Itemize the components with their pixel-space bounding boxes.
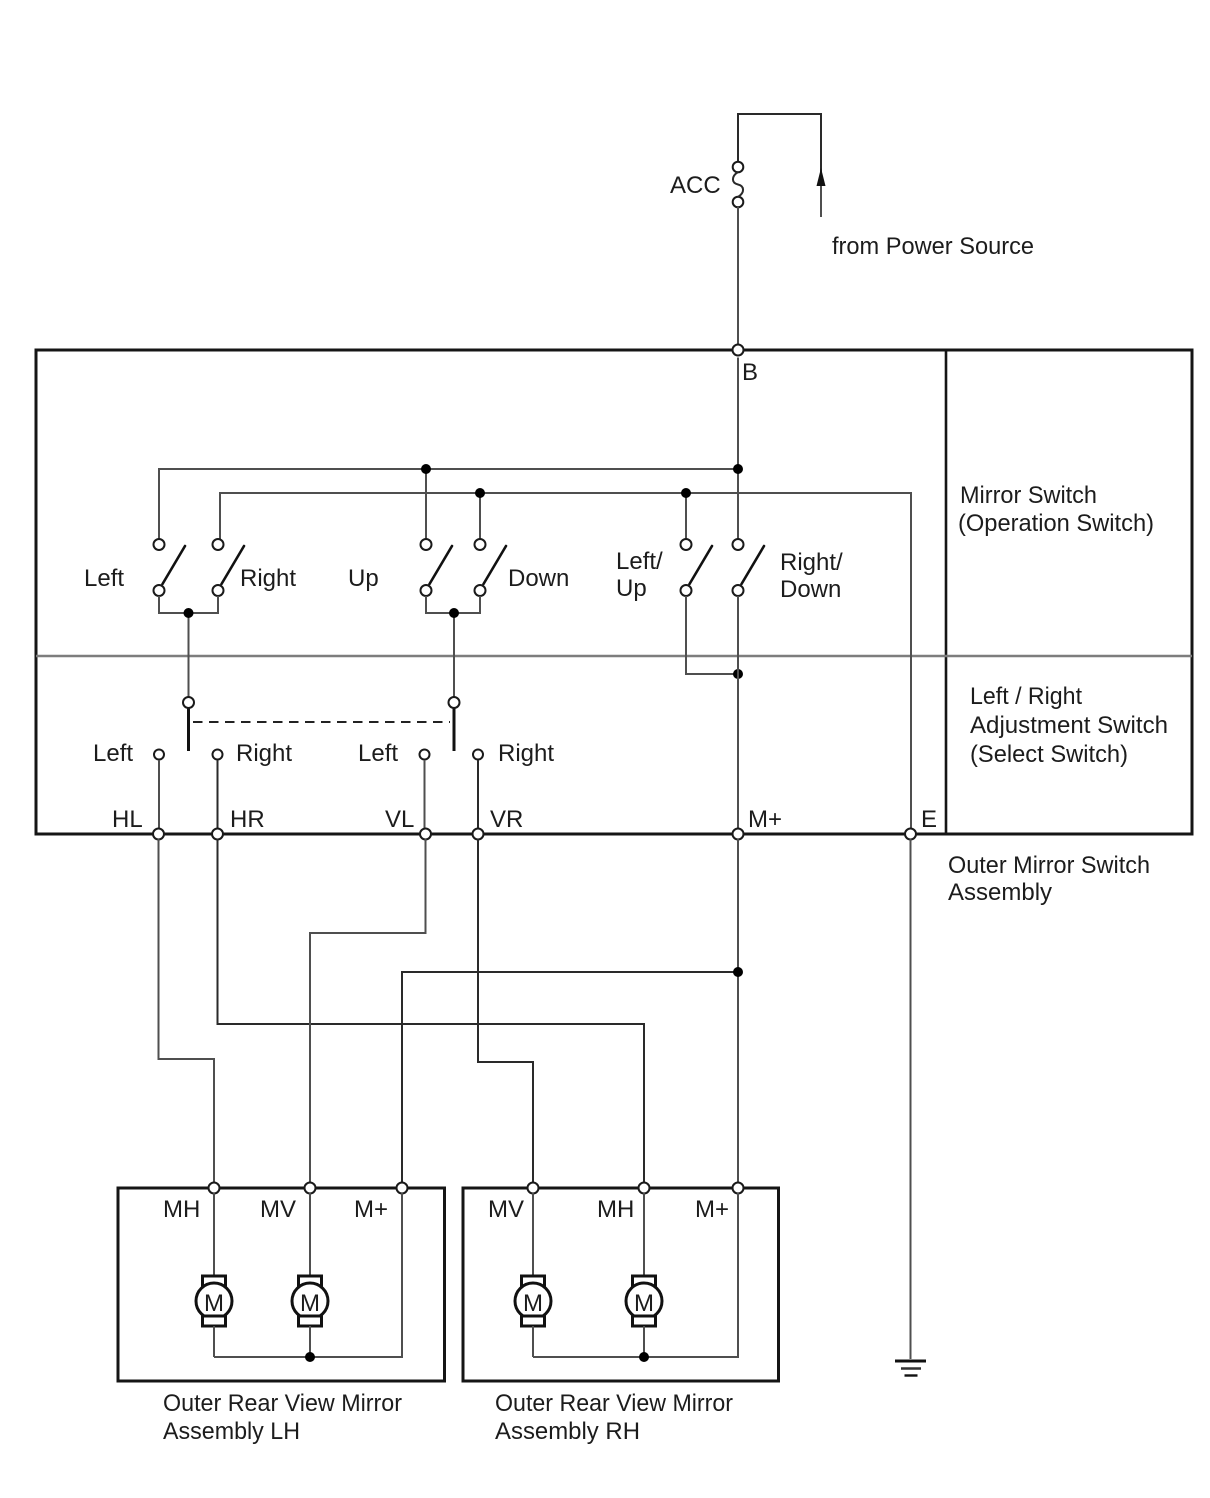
svg-text:Right: Right — [240, 565, 296, 592]
svg-text:Adjustment Switch: Adjustment Switch — [970, 712, 1168, 739]
outer rear view mirror assembly LH box — [118, 1188, 445, 1381]
svg-text:MH: MH — [163, 1196, 200, 1223]
label Mirror Switch (Operation Switch) — [958, 482, 1154, 537]
terminal VL — [420, 829, 431, 840]
motor RH MH — [626, 1193, 662, 1357]
junction dot bus E / Down switch — [475, 488, 485, 498]
svg-text:Outer Rear View Mirror: Outer Rear View Mirror — [495, 1390, 733, 1417]
switch Right/Down — [733, 539, 765, 596]
ground — [895, 1361, 926, 1376]
junction dot bus E / LeftUp switch — [681, 488, 691, 498]
junction dot RH bus — [639, 1352, 649, 1362]
label Outer Rear View Mirror Assembly RH — [495, 1390, 733, 1445]
junction dot M+ branch — [733, 967, 743, 977]
svg-text:VR: VR — [490, 806, 523, 833]
wire HL to LH MH — [159, 839, 215, 1188]
svg-text:M+: M+ — [354, 1196, 388, 1223]
svg-text:Right/: Right/ — [780, 549, 843, 576]
terminal VR — [473, 829, 484, 840]
wire E to ground — [910, 839, 912, 1359]
outer mirror switch assembly box — [36, 350, 1192, 834]
svg-text:(Select Switch): (Select Switch) — [970, 741, 1128, 768]
divider horizontal — [36, 655, 1192, 658]
svg-text:Up: Up — [348, 565, 379, 592]
svg-text:Left: Left — [84, 565, 124, 592]
svg-text:Mirror Switch: Mirror Switch — [960, 482, 1097, 509]
junction dot Up/Down pair — [449, 608, 459, 618]
terminal LH MH — [209, 1183, 220, 1194]
node B — [733, 345, 744, 356]
svg-text:Left / Right: Left / Right — [970, 683, 1082, 710]
terminal HL — [153, 829, 164, 840]
terminal RH MH — [639, 1183, 650, 1194]
wire LH motor common bus — [214, 1193, 402, 1357]
terminal LH MV — [305, 1183, 316, 1194]
terminal RH M+ — [733, 1183, 744, 1194]
wire VL to LH MV — [310, 839, 426, 1188]
wire M+ down to RH M+ — [737, 839, 739, 1188]
wire Right/Down bottom to M+ terminal — [737, 596, 739, 834]
divider vertical — [945, 350, 948, 834]
label Left/ Up — [616, 548, 663, 602]
wire HR to RH MH — [218, 839, 645, 1188]
svg-text:Right: Right — [236, 740, 292, 767]
svg-text:MV: MV — [260, 1196, 296, 1223]
label Outer Rear View Mirror Assembly LH — [163, 1390, 402, 1445]
wire Left/Up bottom to M+ line — [686, 596, 738, 674]
svg-text:M+: M+ — [748, 806, 782, 833]
select contact Left (pole1) — [154, 750, 164, 835]
svg-text:M: M — [634, 1290, 654, 1317]
svg-text:Left: Left — [93, 740, 133, 767]
svg-text:B: B — [742, 359, 758, 386]
label Right/ Down — [780, 549, 843, 603]
svg-text:Up: Up — [616, 575, 647, 602]
terminal HR — [212, 829, 223, 840]
svg-text:Assembly RH: Assembly RH — [495, 1418, 640, 1445]
switch Left/Up — [681, 539, 713, 596]
label Left / Right Adjustment Switch (Select Switch) — [970, 683, 1168, 768]
svg-text:HR: HR — [230, 806, 265, 833]
svg-text:ACC: ACC — [670, 172, 721, 199]
wire joining Up/Down switch pair — [426, 596, 480, 697]
svg-text:E: E — [921, 806, 937, 833]
select contact Left (pole2) — [420, 750, 430, 835]
fuse ACC — [733, 162, 744, 208]
select switch pole 2 — [449, 697, 460, 751]
switch Right — [213, 539, 245, 596]
svg-text:M: M — [204, 1290, 224, 1317]
switch Down — [475, 539, 507, 596]
junction dot LH bus — [305, 1352, 315, 1362]
terminal E — [905, 829, 916, 840]
switch Left — [154, 539, 186, 596]
select contact Right (pole2) — [473, 750, 483, 835]
wire from fuse to power source corner — [738, 114, 821, 217]
svg-text:Down: Down — [508, 565, 569, 592]
wire RH motor common bus — [533, 1193, 738, 1357]
junction dot on M+ line — [733, 669, 743, 679]
svg-text:Assembly LH: Assembly LH — [163, 1418, 300, 1445]
motor RH MV — [515, 1193, 551, 1357]
outer rear view mirror assembly RH box — [463, 1188, 779, 1381]
wire M+ branch to LH M+ — [402, 972, 738, 1188]
svg-text:HL: HL — [112, 806, 143, 833]
terminal RH MV — [528, 1183, 539, 1194]
svg-text:Down: Down — [780, 576, 841, 603]
svg-text:MV: MV — [488, 1196, 524, 1223]
svg-text:Assembly: Assembly — [948, 879, 1052, 906]
svg-text:M+: M+ — [695, 1196, 729, 1223]
label Outer Mirror Switch Assembly — [948, 852, 1150, 906]
junction dot Left/Right pair — [184, 608, 194, 618]
svg-text:Outer Rear View Mirror: Outer Rear View Mirror — [163, 1390, 402, 1417]
svg-text:Left/: Left/ — [616, 548, 663, 575]
svg-text:MH: MH — [597, 1196, 634, 1223]
wire bus B (power) — [159, 358, 738, 540]
arrow from power source (pointing up) — [817, 168, 826, 186]
svg-text:Outer Mirror Switch: Outer Mirror Switch — [948, 852, 1150, 879]
switch Up — [421, 539, 453, 596]
motor LH MV — [292, 1193, 328, 1357]
svg-text:Left: Left — [358, 740, 398, 767]
svg-text:M: M — [523, 1290, 543, 1317]
wire bus E (ground) — [220, 493, 911, 834]
select switch pole 1 — [183, 697, 194, 751]
terminal M+ — [733, 829, 744, 840]
select contact Right (pole1) — [213, 750, 223, 835]
svg-text:from Power Source: from Power Source — [832, 233, 1034, 260]
svg-text:VL: VL — [385, 806, 414, 833]
svg-text:Right: Right — [498, 740, 554, 767]
svg-text:M: M — [300, 1290, 320, 1317]
motor LH MH — [196, 1193, 232, 1357]
wire joining Left/Right switch pair — [159, 596, 218, 697]
junction dot bus B / Up switch — [421, 464, 431, 474]
wire VR to RH MV — [478, 839, 533, 1188]
dashed link between poles — [193, 721, 450, 723]
terminal LH M+ — [397, 1183, 408, 1194]
wire fuse to node B — [737, 207, 739, 350]
svg-text:(Operation Switch): (Operation Switch) — [958, 510, 1154, 537]
junction dot bus B / node B line — [733, 464, 743, 474]
